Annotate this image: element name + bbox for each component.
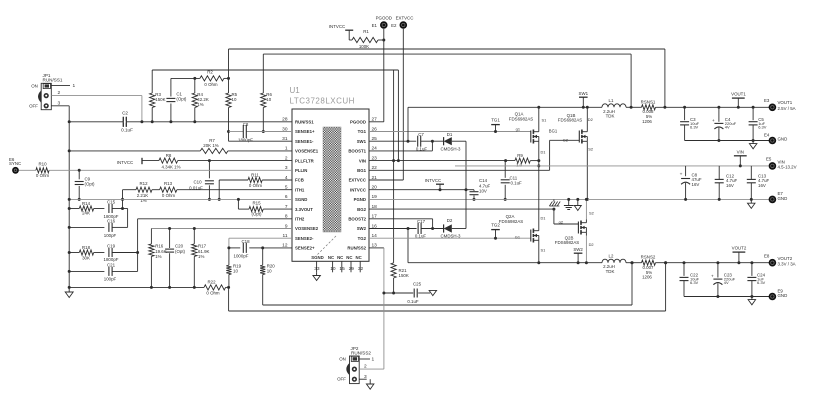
wire SW2 drop [407,229,409,263]
svg-text:NC: NC [328,255,334,260]
svg-text:PLLFLTR: PLLFLTR [295,158,315,163]
C14 labels [479,178,491,193]
inductor L2 [602,259,626,262]
node SGND row [68,198,292,201]
ground at left rail bottom [65,292,73,298]
wire VOUT2 gnd row [684,295,769,298]
wire VIN rail [455,165,768,167]
L2 labels [603,253,615,274]
transistor Q2A FDS6982AS [531,228,539,244]
svg-text:C19: C19 [107,243,116,248]
Q2A labels [499,214,546,252]
C4 labels [725,117,737,130]
terminal E4 GND [769,137,777,145]
svg-text:D2: D2 [447,218,453,223]
svg-text:R17: R17 [198,243,207,248]
node VIN pin row [369,158,539,163]
svg-text:R10: R10 [38,162,47,167]
wire D1 anode to INTVCC [452,141,466,190]
svg-text:RSNS1: RSNS1 [641,99,656,104]
net VOUT1 flag [731,91,746,107]
svg-text:R11: R11 [251,172,259,177]
capacitor C7 [418,136,421,147]
svg-text:TDK: TDK [606,269,615,274]
svg-text:GND: GND [778,196,788,201]
svg-text:1206: 1206 [642,119,652,124]
svg-text:2.5V / 5A: 2.5V / 5A [778,106,796,111]
svg-text:4V: 4V [725,125,730,130]
R21 labels [399,268,409,278]
wire Q2A drain up to VIN [538,166,540,228]
svg-text:OFF: OFF [29,104,38,109]
svg-text:6.3V: 6.3V [690,125,699,130]
node BOOST2 row [369,219,433,229]
svg-text:1800pF: 1800pF [238,138,253,143]
U1 exposed pad dashed tie [316,236,336,256]
svg-text:3.3V / 3A: 3.3V / 3A [778,262,796,267]
ground at U1 SGND pin 33 [313,272,321,280]
capacitor C8 [243,125,246,138]
svg-text:2: 2 [364,364,367,370]
resistor R12 [136,187,152,192]
capacitor C8b bulk [680,166,691,200]
svg-text:30K: 30K [82,255,90,260]
svg-text:3: 3 [58,100,61,106]
svg-text:20K 1%: 20K 1% [203,143,218,148]
terminal E8 VOUT2 [769,259,777,267]
transistor Q1A FDS6982AS [531,129,539,145]
svg-text:0.1uF: 0.1uF [511,181,523,186]
svg-text:(Opt): (Opt) [85,182,96,187]
wire E1 to PGOOD pin 27 [369,29,384,122]
R1 labels [359,29,369,49]
R13 labels [162,181,176,198]
C10 labels [189,179,203,190]
C25 labels [407,282,421,304]
ground below C13 [748,199,756,208]
svg-text:1: 1 [73,83,76,89]
JP1 pin 3 wire [51,100,69,106]
wire VOUT1 row [656,106,770,109]
wire VOUT1 gnd row [685,139,769,142]
U1 bottom pins SGND/NC stubs [314,261,363,272]
svg-text:1%: 1% [198,254,204,259]
capacitor C24 [747,263,756,297]
C15 labels [104,199,119,219]
svg-text:6.3V: 6.3V [758,125,767,130]
svg-text:C21: C21 [107,262,116,267]
wire Q2B source up to PGND [585,198,588,220]
net TG1 flag [491,117,500,133]
svg-text:+: + [712,118,715,123]
JP2 pin 1 stub [359,357,374,363]
node INTVCC pin row [369,188,474,191]
svg-text:BOOST1: BOOST1 [348,149,366,154]
capacitor C18 [243,243,246,253]
node SW2 pin row [369,227,417,230]
svg-text:10V: 10V [479,188,487,193]
svg-text:2: 2 [58,90,61,96]
wire C17 to D2 [421,227,443,230]
svg-text:SGND: SGND [311,255,323,260]
svg-text:PGND: PGND [354,197,366,202]
C11 labels [510,175,523,185]
resistor R19 [226,248,231,288]
capacitor C2 [123,117,126,127]
Q2B labels [555,210,594,247]
R10 labels [36,162,50,178]
wire VOUT2 row [656,261,770,264]
net VIN flag [734,150,747,168]
svg-text:g1: g1 [516,126,520,131]
resistor R10 row [19,168,292,173]
RSNS1 labels [641,99,656,124]
svg-text:19.6K: 19.6K [155,249,167,254]
C24 labels [757,273,766,286]
C21 labels [104,262,117,281]
svg-text:BG1: BG1 [549,129,558,134]
R5 labels [232,92,238,102]
svg-text:R16: R16 [155,243,164,248]
resistor R16 [149,229,154,289]
svg-text:G1: G1 [515,235,520,240]
resistor R6 [261,54,266,133]
capacitor C16 row [68,223,128,232]
svg-text:6.3V: 6.3V [757,280,766,285]
svg-text:1.0: 1.0 [516,163,523,168]
svg-text:16V: 16V [726,183,734,188]
resistor R14 row [68,206,105,211]
jumper JP1 RUN/SS1 [38,83,51,109]
R4 labels [197,92,209,107]
svg-text:ITH1: ITH1 [295,187,305,192]
capacitor C22 [680,263,689,297]
node BOOST1 row [369,141,432,151]
svg-text:RUN/SS2: RUN/SS2 [351,351,371,356]
resistor R18 row [68,250,105,255]
R15 labels [251,201,262,217]
svg-text:32: 32 [358,266,364,272]
JP2 pin 2 wire [359,364,384,370]
svg-text:S2: S2 [589,210,594,215]
Q1B labels [558,113,593,152]
E8 labels [764,254,796,267]
svg-text:10: 10 [232,97,237,102]
C5 labels [758,117,767,130]
svg-text:C7: C7 [418,132,424,137]
RSNS2 labels [641,255,656,280]
R22 labels [206,279,220,295]
E6 labels [9,157,21,166]
resistor R13 [160,187,177,192]
svg-text:0.1uF: 0.1uF [121,128,133,133]
svg-text:TG1: TG1 [358,129,367,134]
node SENSE2+ row [227,246,292,249]
svg-text:1000pF: 1000pF [234,254,249,259]
svg-text:ITH2: ITH2 [295,217,305,222]
svg-text:100K: 100K [359,44,369,49]
resistor R17 [192,229,197,289]
R17 labels [198,243,210,259]
svg-text:C15: C15 [107,199,116,204]
ground hatch on PGND [549,199,560,206]
terminal E6 SYNC [12,167,19,174]
R16 labels [155,243,167,259]
capacitor C12 [715,166,724,200]
net SW1 flag [579,91,589,109]
svg-text:D2: D2 [589,242,594,247]
svg-text:SENSE2-: SENSE2- [295,236,314,241]
svg-text:+: + [711,274,714,279]
JP1 pin 1 stub [51,83,75,89]
capacitor C19 [109,248,138,257]
wire E2 to EXTVCC pin 21 [369,29,403,180]
C16 labels [104,218,117,238]
svg-text:VOUT1: VOUT1 [778,100,793,105]
svg-text:D1: D1 [541,149,546,154]
capacitor C4 [712,107,723,140]
JP1 labels [29,73,63,108]
svg-text:10: 10 [266,97,271,102]
resistor R20 [260,248,265,305]
R9 labels [516,153,523,167]
svg-text:0 Ohm: 0 Ohm [249,183,263,188]
svg-text:10: 10 [267,268,272,273]
svg-text:C18: C18 [241,239,250,244]
svg-text:E4: E4 [764,132,770,137]
svg-text:BG1: BG1 [357,168,366,173]
svg-text:10: 10 [233,268,238,273]
R18 labels [82,245,91,261]
E9 labels [778,288,788,298]
svg-text:(Opt): (Opt) [175,249,186,254]
svg-text:EXTVCC: EXTVCC [396,15,414,20]
svg-text:33: 33 [314,266,320,272]
E3 labels [764,98,796,111]
node TG2 row [369,237,531,239]
svg-text:S1: S1 [542,118,547,123]
svg-text:R18: R18 [82,245,91,250]
resistor R22 row [68,285,230,290]
svg-text:INTVCC: INTVCC [329,24,345,29]
ground below C5 [749,141,757,149]
svg-text:RUN/SS2: RUN/SS2 [347,246,366,251]
terminal E1 PGOOD [380,21,388,29]
resistor RSNS2 [642,260,656,265]
svg-text:INTVCC: INTVCC [350,187,366,192]
svg-text:GND: GND [778,293,788,298]
E4 labels [764,132,787,141]
svg-text:FDS6982AS: FDS6982AS [558,118,582,123]
svg-text:SENSE1+: SENSE1+ [295,129,315,134]
capacitor C10 [205,161,214,201]
svg-text:C25: C25 [413,282,422,287]
capacitor C14 [470,190,479,201]
svg-text:LTC3728LXCUH: LTC3728LXCUH [290,97,355,106]
svg-text:100pF: 100pF [104,233,117,238]
resistor R3 [150,70,155,122]
capacitor C25 row [384,289,430,298]
C8b labels [692,173,702,187]
node BG1 row [369,140,579,170]
ground at C25 [429,290,437,295]
svg-text:SW2: SW2 [573,247,583,252]
node ITH2 row [136,219,292,272]
svg-text:PGOOD: PGOOD [376,15,392,20]
svg-text:C16: C16 [107,218,116,223]
svg-text:VOUT1: VOUT1 [731,91,746,96]
ground triangle on PGND [574,199,581,210]
capacitor C9 [75,170,84,201]
svg-text:SGND: SGND [295,197,307,202]
svg-text:RUN/SS1: RUN/SS1 [295,120,314,125]
capacitor C20 [165,229,174,289]
wire left rail (SGND column) [68,106,70,292]
svg-text:FDS6982AS: FDS6982AS [499,219,523,224]
svg-text:C2: C2 [122,111,128,116]
svg-text:15: 15 [339,266,345,272]
wire VIN pullup line [152,70,398,161]
wire Q1A drain up to SW1 [538,107,540,128]
R7 labels [203,138,218,148]
transistor Q2B FDS6982AS [578,220,586,236]
terminal E7 GND [769,196,777,204]
svg-text:3: 3 [364,374,367,380]
resistor R8 row [142,158,292,163]
svg-text:VOSENSE2: VOSENSE2 [295,226,319,231]
node SW1 pin row to C7 [369,140,416,143]
svg-text:150K: 150K [155,97,165,102]
wire Q1A source down [537,145,540,168]
svg-text:GND: GND [778,136,788,141]
capacitor C1 [166,78,175,121]
svg-text:SYNC: SYNC [9,161,21,166]
C8 labels [238,122,253,143]
capacitor C3 [680,107,689,140]
wire SW1 drop to node [407,107,409,141]
svg-text:24K: 24K [82,211,90,216]
JP2 pin 3 wire [359,374,367,380]
svg-text:R8: R8 [166,153,172,158]
C18 labels [234,239,251,259]
svg-text:6.3V: 6.3V [690,280,699,285]
node PGND row [369,198,769,201]
svg-text:D1: D1 [447,132,453,137]
R20 labels [267,263,276,273]
svg-text:PLLIN: PLLIN [295,168,307,173]
capacitor C23 [711,263,722,297]
C23 labels [724,273,736,286]
svg-text:C8: C8 [243,122,249,127]
JP2 labels [337,346,371,382]
C7 labels [416,132,428,151]
D1 labels [440,132,461,151]
svg-text:E1: E1 [372,23,378,28]
U1 reference label [290,86,355,106]
svg-text:PGOOD: PGOOD [350,120,366,125]
Q1A labels [509,111,546,154]
svg-text:1%: 1% [155,254,161,259]
svg-text:D1: D1 [541,215,546,220]
svg-text:0 Ohm: 0 Ohm [206,291,220,296]
E2 labels [391,15,413,27]
svg-text:VOSENSE1: VOSENSE1 [295,149,319,154]
svg-text:BG2: BG2 [357,207,366,212]
wire L2 to RSNS2 [626,261,642,264]
svg-text:EXTVCC: EXTVCC [349,178,366,183]
svg-text:100pF: 100pF [104,277,117,282]
svg-text:L2: L2 [609,253,614,258]
svg-text:S2: S2 [588,147,593,152]
node BG2 row [369,208,578,224]
svg-text:R12: R12 [139,181,148,186]
C3 labels [690,117,700,130]
svg-text:U1: U1 [290,86,301,95]
wire SENSE1- top line [263,54,631,107]
svg-text:E2: E2 [391,23,397,28]
svg-text:SENSE2+: SENSE2+ [295,246,315,251]
svg-text:C10: C10 [193,179,202,184]
svg-text:R13: R13 [164,181,173,186]
svg-text:R22: R22 [207,279,216,284]
svg-text:+: + [680,172,683,177]
node SENSE2- row [229,238,292,248]
C17 labels [415,219,427,238]
U1 right pin numbers [372,117,378,249]
jumper JP2 RUN/SS2 [346,356,359,384]
resistor R11 row [218,177,292,201]
wire SENSE1+ top line [229,49,665,107]
diode D1 CMDSH-3 [444,137,452,145]
resistor R4 [192,78,197,121]
C9 labels [85,176,96,186]
terminal E3 VOUT1 [769,104,777,112]
resistor R2 row [171,76,230,81]
svg-text:E5: E5 [766,156,772,161]
D2 labels [440,218,461,239]
svg-text:4.5-13.2V: 4.5-13.2V [778,165,797,170]
wire SW2 node row [408,262,602,264]
wire L1 to RSNS1 [626,106,642,109]
R12 labels [137,181,149,203]
ground below C24 [748,297,756,305]
svg-text:RSNS2: RSNS2 [641,255,656,260]
R11 labels [249,172,263,187]
svg-text:FCB: FCB [295,178,304,183]
svg-text:3.3VOUT: 3.3VOUT [295,207,313,212]
node VOSENSE2 row [151,227,292,230]
svg-text:RUN/SS1: RUN/SS1 [43,78,63,83]
svg-text:SW2: SW2 [357,226,367,231]
svg-text:(Opt): (Opt) [251,211,262,216]
C1 labels [176,92,187,102]
svg-text:E3: E3 [764,98,770,103]
capacitor C5 [749,107,758,140]
wire Q2A source down to SW2 [537,244,540,265]
C2 labels [121,111,133,133]
terminal E5 VIN [769,162,777,170]
net INTVCC flag top [329,24,353,40]
diode D2 CMDSH-3 [444,224,452,232]
svg-text:TG1: TG1 [491,117,500,122]
L1 labels [603,98,615,119]
svg-text:61.9K: 61.9K [198,249,210,254]
svg-text:0.1uF: 0.1uF [407,299,419,304]
resistor R21 [391,159,396,294]
E1 labels [372,15,392,27]
R8 labels [161,153,180,169]
node SENSE1+ row [229,131,293,133]
